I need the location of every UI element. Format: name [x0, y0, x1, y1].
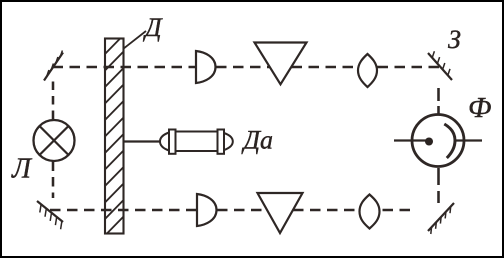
svg-text:З: З [448, 25, 461, 54]
diffuser plate D (hatched bar) [103, 32, 127, 254]
photodetector F (photocell) [394, 115, 482, 167]
beam path bottom (dashed) [50, 209, 416, 212]
prism P1 top [255, 43, 307, 85]
svg-text:Ф: Ф [468, 92, 491, 124]
beam path right vertical lower (dashed) [437, 168, 440, 203]
lens L3 plano-convex bottom [197, 194, 217, 226]
mirror M1 top-left [44, 51, 63, 81]
lens L4 biconvex bottom [360, 195, 380, 229]
mirror M2 bottom-left [37, 201, 63, 229]
prism P2 bottom [258, 193, 303, 233]
mirror M4 bottom-right [428, 203, 454, 234]
mirror Z top-right [428, 51, 452, 80]
cell Da (cylinder) [160, 130, 233, 154]
lens L1 plano-convex top [196, 51, 216, 83]
wire from plate to cell [124, 140, 167, 142]
beam path left vertical upper (dashed) [52, 82, 55, 121]
beam path left vertical lower (dashed) [52, 162, 55, 199]
svg-text:Д: Д [142, 13, 163, 42]
svg-text:Л: Л [11, 154, 33, 185]
lamp L (circle with X) [34, 120, 75, 161]
svg-text:Да: Да [241, 126, 274, 155]
lens L2 biconvex top [358, 54, 377, 87]
beam path top (dashed) [53, 66, 441, 69]
beam path right vertical upper (dashed) [437, 88, 440, 114]
callout line to label D [123, 31, 146, 49]
